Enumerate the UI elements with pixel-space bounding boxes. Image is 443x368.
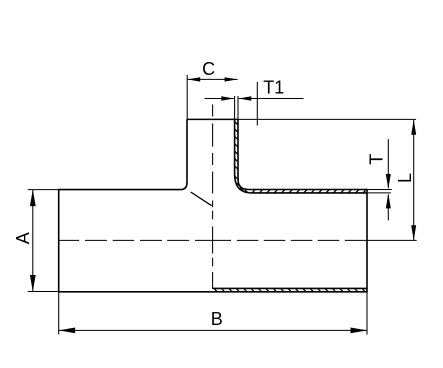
dimension A extension line bottom — [28, 291, 59, 293]
svg-text:B: B — [211, 309, 223, 329]
branch vertical centerline (dashed) — [212, 104, 214, 116]
weld tangent line at crotch (left side) — [191, 192, 212, 206]
section hatching: run top wall (right half) — [252, 190, 255, 193]
extension line for dim L (top, collinear with branch top) — [238, 118, 416, 120]
branch left outer wall — [186, 119, 188, 182]
branch right outer wall with outside radius into run top surface — [238, 119, 367, 189]
section hatching: branch right wall — [235, 122, 238, 125]
branch left wall extension line for dim C — [186, 75, 188, 119]
dimension T extension lines (wall surfaces extended right) — [367, 189, 392, 191]
section hatching: run bottom wall (right half) — [214, 288, 217, 291]
run pipe right end face — [366, 189, 368, 293]
run pipe top outer surface (left of branch) — [59, 182, 187, 189]
branch right inner wall (sectioned) with crotch radius into run bore — [235, 119, 367, 192]
dimension C line with arrows — [187, 78, 237, 80]
dimension B extension line right — [366, 293, 368, 335]
branch top end face — [187, 118, 238, 120]
run pipe bottom outer surface — [59, 291, 367, 293]
run horizontal centerline (dashed), also L bottom extension — [59, 239, 80, 241]
dimension B extension line left — [58, 293, 60, 335]
svg-text:A: A — [13, 232, 33, 244]
T1 extension line — [256, 82, 258, 126]
dimension L line with arrows — [413, 120, 415, 241]
dimension A extension line top — [28, 189, 59, 191]
dimension B line with arrows — [59, 329, 367, 331]
dimension T upper arrow line — [387, 139, 389, 188]
dimension A line with arrows — [32, 190, 34, 292]
branch right inner wall extension above (for dim T1/C) — [234, 96, 236, 119]
dimension T lower arrow line — [387, 195, 389, 221]
svg-text:T: T — [366, 154, 386, 165]
dimension T1 right arrow line — [239, 98, 304, 100]
run pipe bottom inner surface (sectioned right half) — [213, 287, 367, 289]
section hatching: crotch radius band — [235, 177, 239, 180]
dimension T1 left arrow line — [205, 98, 234, 100]
svg-text:C: C — [202, 59, 215, 79]
svg-text:T1: T1 — [263, 78, 284, 98]
run pipe left end face — [58, 189, 60, 293]
svg-text:L: L — [395, 173, 415, 183]
branch right outer wall extension above (for dim T1) — [237, 96, 239, 119]
